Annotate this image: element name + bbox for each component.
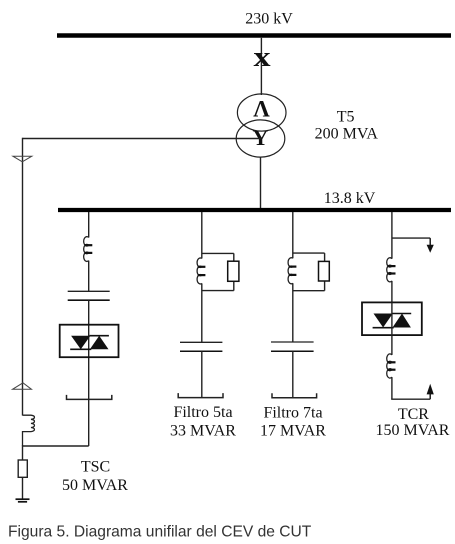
svg-text:230 kV: 230 kV xyxy=(245,11,293,28)
grounding resistor xyxy=(18,460,27,477)
TCR inductor 2 xyxy=(387,354,396,378)
svg-text:13.8 kV: 13.8 kV xyxy=(324,190,376,207)
TSC thyristor valve box xyxy=(60,325,119,358)
svg-text:Y: Y xyxy=(253,125,269,150)
filter7 top connector xyxy=(293,252,325,254)
filter5 resistor leads xyxy=(233,253,235,261)
filter5 bottom connector xyxy=(202,290,234,292)
filter5 inductor xyxy=(197,258,205,284)
wire resistor to ground xyxy=(22,477,24,499)
filter5 top connector xyxy=(202,252,234,254)
svg-text:TSC: TSC xyxy=(81,459,110,476)
TSC capacitor xyxy=(68,291,110,300)
svg-text:TCR: TCR xyxy=(398,406,429,423)
svg-text:Filtro 7ta: Filtro 7ta xyxy=(263,405,322,422)
svg-text:33 MVAR: 33 MVAR xyxy=(170,423,236,440)
wire xyxy=(391,377,393,399)
svg-text:150 MVAR: 150 MVAR xyxy=(376,422,450,439)
wire HV tap horizontal xyxy=(23,138,262,140)
wire xyxy=(292,283,294,342)
svg-text:Filtro 5ta: Filtro 5ta xyxy=(173,404,232,421)
TCR top tap wire xyxy=(392,237,430,239)
arrester triangle up xyxy=(13,383,32,390)
wire junction to TSC xyxy=(23,445,89,447)
transformer T5 secondary winding xyxy=(236,120,285,157)
wire through box xyxy=(391,302,393,355)
filter7 bottom connector xyxy=(293,290,325,292)
wire HV tap vertical xyxy=(22,138,24,416)
TSC branch wire xyxy=(88,212,90,238)
filter7 capacitor xyxy=(271,342,314,351)
wire xyxy=(292,351,294,398)
TCR thyristor valve box xyxy=(362,302,422,335)
TCR branch wire xyxy=(391,212,393,259)
wire xyxy=(88,261,90,291)
grounding inductor xyxy=(23,415,35,446)
TSC inductor xyxy=(84,237,93,262)
filter5 bracket xyxy=(178,393,223,398)
svg-text:17 MVAR: 17 MVAR xyxy=(260,423,326,440)
TCR bottom arrow xyxy=(427,384,434,400)
transformer T5 primary winding xyxy=(237,94,286,131)
filter7 bracket xyxy=(272,393,317,398)
TCR inductor 1 xyxy=(387,258,396,282)
bus 230 kV xyxy=(57,33,451,38)
wire xyxy=(201,283,203,342)
svg-text:Figura 5. Diagrama unifilar de: Figura 5. Diagrama unifilar del CEV de C… xyxy=(8,524,312,541)
wire xyxy=(391,281,393,303)
TCR top arrow xyxy=(427,238,434,253)
svg-text:T5: T5 xyxy=(337,109,355,126)
arrester triangle down xyxy=(13,156,32,162)
ground xyxy=(16,499,30,502)
TCR bottom tap wire xyxy=(391,398,430,400)
wire junction down xyxy=(22,445,24,460)
filter7 resistor leads xyxy=(324,253,326,261)
filter5 resistor xyxy=(228,261,239,281)
svg-text:x: x xyxy=(253,41,270,72)
bus 13.8 kV xyxy=(58,208,451,212)
filter7 resistor xyxy=(319,261,330,281)
wire xyxy=(88,300,90,446)
filter5 branch wire xyxy=(201,212,203,259)
svg-text:200 MVA: 200 MVA xyxy=(315,126,379,143)
filter7 inductor xyxy=(288,258,296,284)
wire bus1 to transformer xyxy=(260,38,262,95)
wire transformer to bus2 xyxy=(260,157,262,209)
TSC breaker bracket xyxy=(67,395,112,400)
svg-text:Λ: Λ xyxy=(253,97,270,122)
wire xyxy=(201,351,203,397)
filter7 branch wire xyxy=(292,212,294,258)
filter5 capacitor xyxy=(180,342,222,351)
svg-text:50 MVAR: 50 MVAR xyxy=(62,477,128,494)
